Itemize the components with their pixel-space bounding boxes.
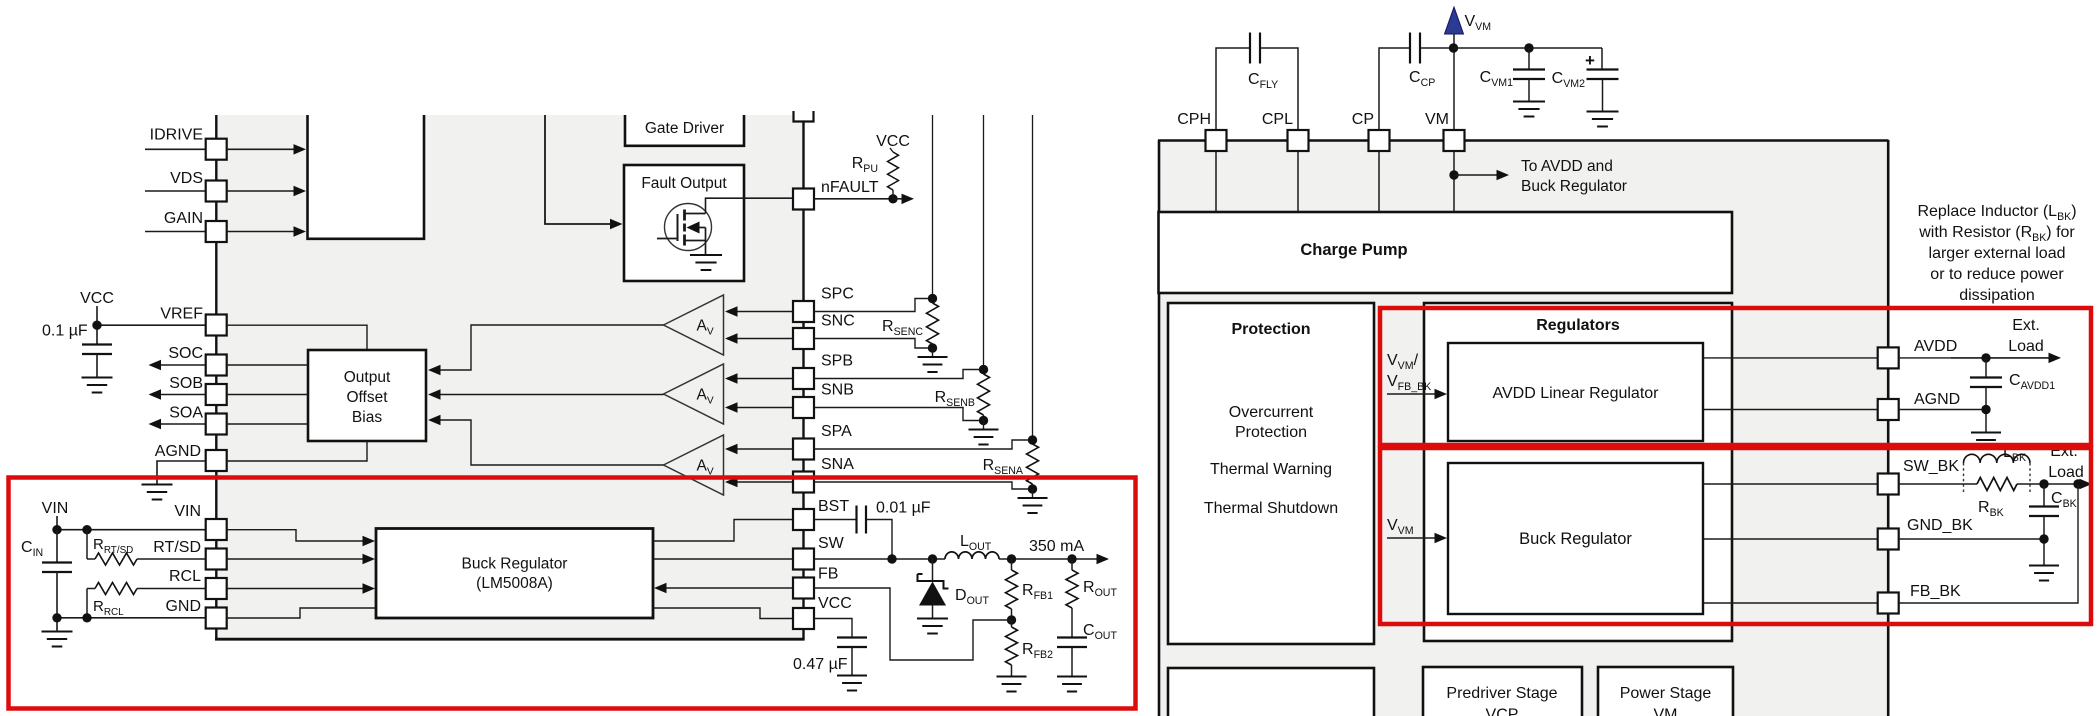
svg-text:BST: BST: [818, 498, 849, 515]
svg-text:Gate Driver: Gate Driver: [645, 120, 724, 137]
pin SNC: [793, 328, 814, 349]
svg-text:Load: Load: [2008, 338, 2044, 355]
wire: RCL pin into Buck Regulator: [227, 588, 366, 590]
wire: GND_BK to C_BK node: [1899, 538, 2044, 540]
Protection block: [1168, 303, 1374, 644]
pin SPC: [793, 301, 814, 322]
svg-text:SOB: SOB: [169, 375, 203, 392]
ground (fault output source): [690, 254, 722, 256]
Gate Driver block: [625, 115, 744, 146]
capacitor C_VM1: [1524, 43, 1533, 52]
svg-text:SPB: SPB: [821, 353, 853, 370]
inductor L_OUT: [945, 552, 999, 559]
op-amp A_V (B-phase sense amp): [664, 364, 724, 424]
Predriver Stage block (cropped): [1423, 667, 1582, 716]
svg-text:Thermal Warning: Thermal Warning: [1210, 461, 1332, 478]
wire: Buck regulator to FB_BK pin: [1703, 602, 1878, 604]
capacitor C_AVDD1: [1985, 358, 1987, 377]
wire: SNA to sense amp: [735, 481, 793, 483]
wire VCC to VREF pin: [97, 324, 206, 326]
resistor R_PU: [888, 152, 899, 190]
svg-text:(LM5008A): (LM5008A): [476, 575, 553, 592]
wire: R_BK to ext load: [2017, 483, 2083, 485]
svg-text:Overcurrent: Overcurrent: [1229, 404, 1314, 421]
svg-text:IDRIVE: IDRIVE: [150, 127, 203, 144]
wire: top feed down to R_SENA: [1032, 115, 1034, 440]
pin GND: [206, 608, 227, 629]
ground (D_OUT): [917, 618, 948, 620]
pin FB: [793, 578, 814, 599]
wire: OOB to SOB: [227, 394, 308, 396]
ground (R_FB2): [997, 676, 1027, 678]
Buck Regulator block (LM5008A): [376, 529, 653, 619]
svg-text:Protection: Protection: [1231, 321, 1310, 338]
svg-text:VREF: VREF: [160, 306, 203, 323]
svg-text:+: +: [1585, 51, 1595, 70]
svg-text:Output: Output: [344, 369, 391, 386]
wire: GND pin into Buck Regulator: [227, 608, 376, 618]
pin SOB: [158, 394, 206, 396]
wire: FB pin into Buck Regulator (arrow): [663, 587, 793, 589]
ground (C_VM1): [1513, 101, 1545, 103]
wire: nFAULT to pull-up node and out: [814, 198, 894, 200]
resistor R_BK: [1977, 478, 2017, 491]
node FB divider: [1007, 615, 1016, 624]
pin CP: [1378, 151, 1380, 212]
resistor R_OUT (load): [1071, 559, 1073, 570]
ground (C_IN): [42, 631, 73, 633]
ground (C_BK): [2029, 565, 2059, 567]
pin IDRIVE: [145, 148, 206, 150]
svg-text:VIN: VIN: [174, 503, 201, 520]
ground (AGND): [142, 484, 173, 486]
svg-text:Buck Regulator: Buck Regulator: [1521, 178, 1627, 195]
svg-text:VCC: VCC: [80, 290, 114, 307]
wire: VIN node rail: [57, 529, 206, 531]
wire: top feed down to R_SENC: [932, 115, 934, 299]
wire: Buck regulator to SW_BK pin: [1703, 483, 1878, 485]
Charge Pump block: [1159, 212, 1733, 293]
pin AGND: [1878, 399, 1899, 420]
wire: AGND to ground: [157, 461, 206, 484]
svg-text:Predriver Stage: Predriver Stage: [1446, 685, 1557, 702]
svg-text:Thermal Shutdown: Thermal Shutdown: [1204, 500, 1338, 517]
pin AGND: [206, 450, 227, 471]
svg-text:AGND: AGND: [155, 443, 201, 460]
node: VM to AVDD and Buck Regulator: [1449, 170, 1458, 179]
wire: SPC to R_SENC top node: [814, 299, 930, 312]
cropped pin at top of right edge: [794, 111, 814, 122]
pin GND_BK: [1878, 529, 1899, 550]
pin VCC: [793, 608, 814, 629]
wire: SPB to sense amp: [735, 378, 793, 380]
svg-text:dissipation: dissipation: [1959, 287, 2035, 304]
svg-text:or to reduce power: or to reduce power: [1930, 266, 2064, 283]
svg-text:VCP: VCP: [1486, 707, 1519, 716]
pin RCL: [206, 578, 227, 599]
wire: AVDD to external load: [1899, 357, 1951, 359]
svg-text:FB: FB: [818, 566, 838, 583]
svg-text:Power Stage: Power Stage: [1620, 685, 1712, 702]
wire: VM rail from flag to pin: [1453, 34, 1455, 130]
pin VM: [1453, 151, 1455, 212]
capacitor C_VM2 (electrolytic, +): [1601, 48, 1603, 69]
unnamed driver block (top, arrows from IDRIVE/VDS/GAIN): [308, 115, 425, 239]
svg-text:SPC: SPC: [821, 286, 854, 303]
capacitor 0.01uF (BST bootstrap): [814, 519, 858, 521]
wire: AGND pin to OOB bottom: [227, 441, 367, 461]
ground (C_AVDD1): [1971, 432, 2001, 434]
resistor R_FB1: [1011, 559, 1013, 570]
pin nFAULT: [793, 189, 814, 210]
wire: VIN pin into Buck Regulator: [227, 530, 366, 541]
svg-text:RCL: RCL: [169, 568, 201, 585]
ground (R_SENA): [1032, 489, 1034, 498]
block below Protection (cropped): [1168, 668, 1374, 716]
svg-text:0.47 µF: 0.47 µF: [793, 656, 848, 673]
svg-text:SW: SW: [818, 535, 845, 552]
capacitor C_OUT: [1057, 636, 1087, 638]
svg-text:0.01 µF: 0.01 µF: [876, 500, 931, 517]
svg-text:SW_BK: SW_BK: [1903, 458, 1959, 475]
wire: Av2 output to Output Offset Bias: [437, 394, 664, 396]
svg-text:AVDD Linear Regulator: AVDD Linear Regulator: [1492, 385, 1659, 402]
wire: Av3 output to Output Offset Bias: [437, 420, 664, 465]
Regulators block: [1424, 303, 1732, 641]
wire: VREF to Output Offset Bias box: [227, 325, 367, 349]
svg-text:Bias: Bias: [352, 409, 382, 426]
wire: SPC to sense amp: [735, 311, 793, 313]
svg-text:AVDD: AVDD: [1914, 338, 1957, 355]
wire: VM rail to C_VM1/C_VM2: [1454, 47, 1603, 49]
Power Stage block (cropped): [1598, 667, 1733, 716]
wire: Av1 output to Output Offset Bias: [437, 325, 664, 370]
svg-text:Load: Load: [2048, 464, 2084, 481]
svg-text:350 mA: 350 mA: [1029, 538, 1084, 555]
svg-text:SNA: SNA: [821, 456, 854, 473]
pin SW_BK: [1878, 474, 1899, 495]
IC body U2 (motor driver device, right diagram): [1159, 140, 1888, 716]
svg-text:SNC: SNC: [821, 313, 855, 330]
svg-text:VCC: VCC: [818, 595, 852, 612]
wire: MOSFET drain to nFAULT pin: [706, 198, 794, 213]
svg-text:Protection: Protection: [1235, 424, 1307, 441]
ground (0.47uF): [837, 675, 867, 677]
wire: L_OUT to output: [999, 558, 1100, 560]
wire: SPA to R_SENA top node: [814, 440, 1030, 449]
wire: Buck regulator to GND_BK pin: [1703, 538, 1878, 540]
svg-text:Offset: Offset: [346, 389, 388, 406]
wire: Buck Regulator SW to SW pin: [653, 558, 793, 560]
svg-text:0.1 µF: 0.1 µF: [42, 323, 88, 340]
inductor L_BK (to be replaced, dashed): [1963, 463, 1965, 494]
pin CPL: [1297, 151, 1299, 212]
svg-text:SOC: SOC: [168, 345, 203, 362]
pin SPB: [793, 368, 814, 389]
svg-text:GND: GND: [165, 598, 201, 615]
wire: SW_BK to R_BK: [1899, 483, 1977, 485]
wire: SNB to R_SENB bottom node: [814, 408, 981, 421]
svg-text:larger external load: larger external load: [1929, 245, 2066, 262]
pin SW: [793, 549, 814, 570]
svg-text:AGND: AGND: [1914, 391, 1960, 408]
pin VDS: [145, 190, 206, 192]
svg-text:CPL: CPL: [1262, 111, 1293, 128]
capacitor 0.47uF (VCC bypass): [814, 619, 853, 638]
Output Offset Bias block: [308, 350, 426, 441]
svg-text:VIN: VIN: [42, 500, 69, 517]
wire: RT/SD pin into Buck Regulator: [227, 558, 366, 560]
capacitor C_FLY (flying cap): [1216, 48, 1251, 130]
pin SOA: [158, 423, 206, 425]
resistor R_RCL: [95, 583, 137, 595]
ground (C_OUT): [1057, 676, 1087, 678]
diode D_OUT (catch schottky): [932, 559, 934, 581]
ground (R_SENB): [983, 421, 985, 430]
svg-text:Buck Regulator: Buck Regulator: [462, 556, 568, 573]
wire: SNC to R_SENC bottom node: [814, 339, 930, 349]
resistor R_SENB: [978, 374, 990, 415]
pin BST: [793, 509, 814, 530]
svg-text:SOA: SOA: [169, 405, 203, 422]
highlight box (left red rectangle): [9, 478, 1136, 709]
pin RT/SD: [206, 549, 227, 570]
svg-text:VDS: VDS: [170, 170, 203, 187]
capacitor C_CP: [1379, 48, 1411, 130]
AVDD Linear Regulator block: [1448, 343, 1703, 441]
IC body U1 (gate driver device, left diagram): [217, 115, 804, 640]
pin FB_BK: [1878, 593, 1899, 614]
highlight box (right red rectangle, Buck regulator): [1380, 448, 2091, 624]
svg-text:FB_BK: FB_BK: [1910, 583, 1961, 600]
Buck Regulator block: [1448, 463, 1703, 614]
wire: OOB to SOC: [227, 364, 308, 366]
svg-text:Buck Regulator: Buck Regulator: [1519, 530, 1632, 548]
svg-text:VCC: VCC: [876, 133, 910, 150]
Fault Output block: [624, 165, 744, 281]
svg-text:SPA: SPA: [821, 423, 852, 440]
pin CPH: [1215, 151, 1217, 212]
wire: IDRIVE arrow into driver block: [227, 148, 297, 150]
svg-text:VM: VM: [1654, 707, 1678, 716]
wire: Buck Regulator VCC out to VCC pin: [653, 608, 793, 619]
wire: AVDD regulator to AGND pin: [1703, 409, 1878, 411]
wire: SPA to sense amp: [735, 448, 793, 450]
pin SOC: [158, 364, 206, 366]
wire: FB pin to divider node: [814, 588, 1012, 660]
wire: top feed down to R_SENB: [983, 115, 985, 370]
wire: FB_BK feedback to output node: [1899, 484, 2078, 603]
svg-text:CPH: CPH: [1177, 111, 1211, 128]
wire: SNA to R_SENA bottom node: [814, 482, 1030, 489]
wire: SW output node: [814, 558, 946, 560]
svg-text:Regulators: Regulators: [1536, 317, 1620, 334]
highlight box (right red rectangle, AVDD regulator): [1380, 308, 2091, 445]
op-amp A_V (A-phase sense amp): [664, 435, 724, 495]
wire: SNB to sense amp: [735, 407, 793, 409]
wire: GND rail: [57, 617, 206, 619]
pin VIN: [206, 519, 227, 540]
wire: AVDD regulator to AVDD pin: [1703, 357, 1878, 359]
resistor R_SENC: [927, 303, 939, 344]
svg-text:Ext.: Ext.: [2012, 317, 2040, 334]
svg-text:To AVDD and: To AVDD and: [1521, 158, 1613, 175]
power flag V_VM (blue): [1445, 7, 1464, 34]
svg-text:nFAULT: nFAULT: [821, 179, 879, 196]
pin SPA: [793, 439, 814, 460]
svg-text:GAIN: GAIN: [164, 210, 203, 227]
resistor R_RT/SD: [86, 530, 88, 559]
wire: AGND to cap node: [1899, 409, 1986, 411]
wire: SPB to R_SENB top node: [814, 370, 981, 379]
svg-text:SNB: SNB: [821, 382, 854, 399]
pin GAIN: [145, 231, 206, 233]
svg-text:VM: VM: [1425, 111, 1449, 128]
ground (0.1uF): [82, 377, 113, 379]
svg-text:CP: CP: [1352, 111, 1374, 128]
op-amp A_V (C-phase sense amp): [664, 295, 724, 355]
transistor Q1 (fault output MOSFET): [665, 204, 712, 251]
wire: VDS arrow into driver block: [227, 190, 297, 192]
svg-text:Fault Output: Fault Output: [641, 175, 727, 192]
pin VREF: [206, 315, 227, 336]
wire: Buck Regulator to BST pin: [653, 520, 793, 542]
resistor R_FB2: [1006, 627, 1018, 665]
wire: GAIN arrow into driver block: [227, 231, 297, 233]
pin SNA: [793, 472, 814, 493]
pin AVDD: [1878, 347, 1899, 368]
svg-text:Charge Pump: Charge Pump: [1300, 241, 1407, 259]
wire: SNC to sense amp: [735, 338, 793, 340]
svg-text:RT/SD: RT/SD: [153, 539, 201, 556]
pin SNB: [793, 397, 814, 418]
wire: OOB to SOA: [227, 423, 308, 425]
ground (R_SENC): [932, 348, 934, 357]
resistor R_SENA: [1027, 444, 1039, 484]
ground (C_VM2): [1587, 111, 1619, 113]
svg-text:GND_BK: GND_BK: [1907, 517, 1973, 534]
capacitor C_BK: [2043, 484, 2045, 506]
wire: gate-driver feed down to Fault Output arrow: [545, 115, 612, 224]
